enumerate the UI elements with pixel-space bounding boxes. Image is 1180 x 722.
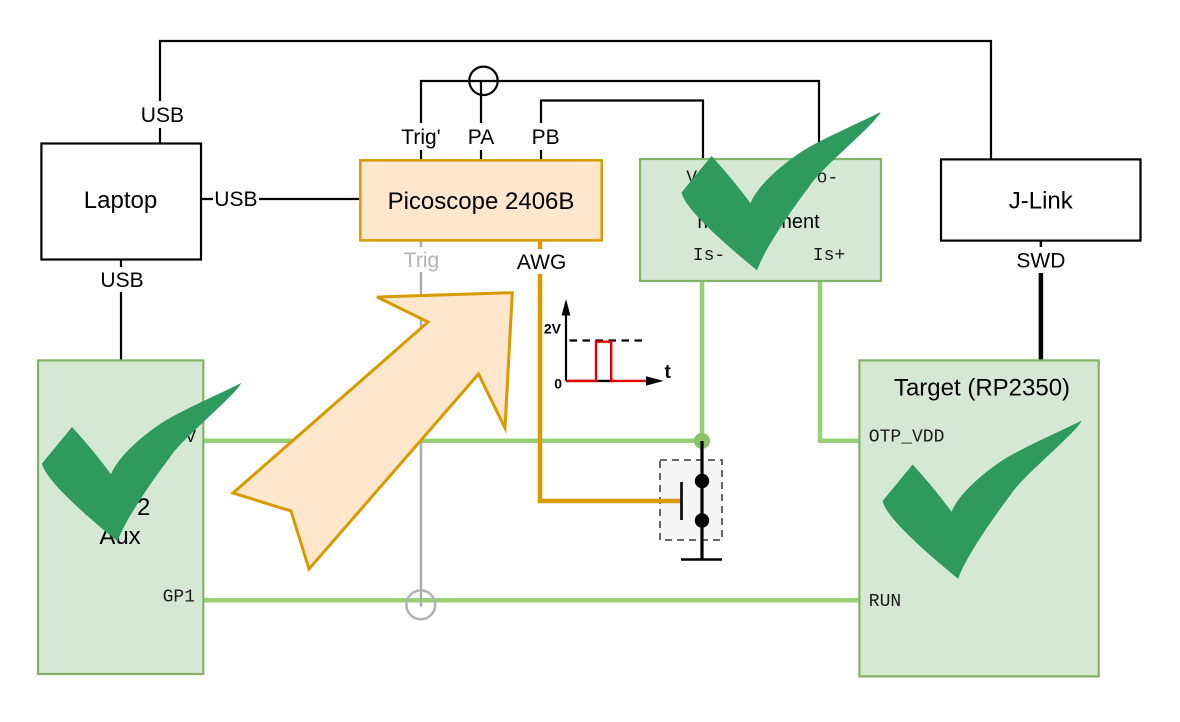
svg-text:0: 0 [554,376,562,392]
svg-text:Picoscope 2406B: Picoscope 2406B [388,188,575,215]
svg-text:USB: USB [141,104,184,127]
svg-text:2V: 2V [544,320,562,336]
svg-text:SWD: SWD [1016,250,1065,273]
svg-text:Trig: Trig [404,249,439,272]
svg-text:Laptop: Laptop [84,187,157,214]
svg-text:Is-: Is- [693,246,725,266]
svg-text:Is+: Is+ [813,246,845,266]
svg-text:GP1: GP1 [163,588,195,608]
svg-text:Target (RP2350): Target (RP2350) [894,375,1070,402]
svg-text:PB: PB [532,126,560,149]
svg-text:OTP_VDD: OTP_VDD [869,428,945,448]
svg-text:J-Link: J-Link [1009,188,1074,215]
svg-text:Trig': Trig' [401,126,440,149]
svg-text:PA: PA [468,126,494,149]
svg-text:USB: USB [100,269,143,292]
svg-text:RUN: RUN [869,592,901,612]
svg-text:t: t [665,362,672,383]
svg-text:USB: USB [214,188,257,211]
svg-text:AWG: AWG [517,251,566,274]
